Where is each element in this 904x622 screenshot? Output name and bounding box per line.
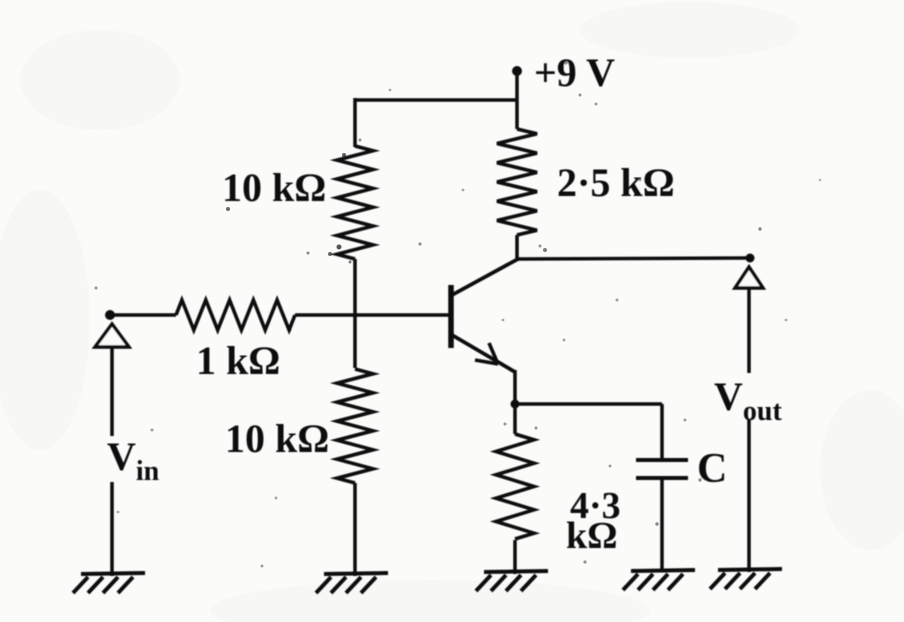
wire +9V stub down to rail	[515, 71, 519, 129]
wire Vout lower segment	[747, 420, 751, 572]
svg-text:10 kΩ: 10 kΩ	[225, 416, 329, 461]
ground for emitter resistor	[484, 571, 548, 572]
resistor 10 kOhm upper	[337, 146, 373, 259]
svg-text:10 kΩ: 10 kΩ	[222, 165, 326, 210]
wire base node to transistor base	[355, 313, 449, 317]
ground for capacitor	[631, 570, 695, 571]
node emitter junction	[511, 400, 520, 409]
resistor 4.3 kOhm emitter	[513, 404, 517, 434]
wire Vin upper segment	[110, 347, 114, 436]
transistor Q1 emitter arrowhead	[475, 343, 498, 364]
ground for bias divider	[324, 573, 388, 574]
resistor 1 kOhm series	[176, 300, 295, 330]
wire 2.5k to collector node	[515, 235, 519, 260]
wire capacitor to ground	[660, 478, 664, 572]
capacitor C bottom plate	[636, 476, 688, 480]
transistor Q1 emitter lead	[452, 335, 515, 372]
svg-text:C: C	[697, 446, 727, 492]
wire rail down to 10k upper	[353, 98, 357, 147]
wire emitter node to capacitor	[515, 402, 662, 406]
node Vin input	[105, 310, 115, 320]
svg-text:2·5 kΩ: 2·5 kΩ	[557, 160, 675, 205]
arrow Vout	[735, 267, 763, 288]
transistor Q1 base bar	[448, 285, 454, 348]
node +9V supply	[512, 66, 522, 76]
ground for Vin	[81, 573, 145, 574]
wire Vin node to 1k	[110, 313, 176, 317]
wire Vout upper segment	[747, 288, 751, 373]
wire 10k upper to base node	[353, 259, 357, 317]
wire 10k lower to ground	[353, 483, 357, 576]
svg-text:+9 V: +9 V	[534, 50, 615, 95]
capacitor C top plate	[636, 458, 688, 462]
arrow Vin source	[95, 324, 129, 347]
resistor 10 kOhm lower	[353, 315, 357, 368]
node Vout junction	[746, 254, 755, 263]
svg-text:1 kΩ: 1 kΩ	[196, 338, 280, 383]
ground for Vout	[718, 569, 782, 570]
wire 1k to base node	[295, 313, 355, 317]
resistor 2.5 kOhm collector	[497, 129, 537, 235]
wire Vin lower segment	[110, 482, 114, 576]
wire top rail to bias divider	[355, 98, 517, 102]
svg-text:kΩ: kΩ	[566, 515, 618, 557]
wire collector to output node	[517, 258, 750, 259]
transistor Q1 collector lead	[452, 259, 518, 295]
wire 4.3k to ground	[513, 540, 517, 574]
scan noise specks	[95, 61, 822, 567]
wire emitter down to node	[513, 370, 517, 406]
